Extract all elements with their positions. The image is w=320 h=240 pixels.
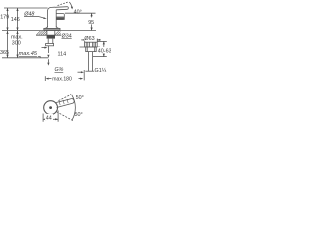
G3/8 direction arrow <box>47 59 49 62</box>
lever raised dashed line <box>58 2 69 6</box>
svg-text:365: 365 <box>0 50 9 56</box>
faucet body left edge <box>47 10 49 27</box>
svg-text:max.45: max.45 <box>19 51 38 57</box>
plan view swing dashed down <box>57 112 73 121</box>
svg-text:300: 300 <box>12 41 21 47</box>
basin surface line <box>80 46 101 48</box>
spout <box>56 13 64 15</box>
dimension 179 line <box>7 8 9 31</box>
svg-text:Ø48: Ø48 <box>23 11 34 17</box>
deck hatching right <box>55 31 61 35</box>
label 44 <box>45 114 53 120</box>
escutcheon <box>44 28 60 30</box>
svg-text:95: 95 <box>88 20 94 26</box>
waste locknut <box>86 47 97 52</box>
hose coupling <box>46 44 54 46</box>
label Ø63 <box>84 35 95 41</box>
dimension 40-63 ext lines <box>97 40 107 42</box>
dimension max180 line <box>44 76 46 81</box>
wire deck line <box>2 30 96 32</box>
svg-text:40-63: 40-63 <box>98 49 111 55</box>
dimension 95 extension line <box>65 12 96 14</box>
svg-text:44: 44 <box>46 116 52 122</box>
dimension Ø63 ext lines <box>84 39 86 43</box>
label 95 <box>88 17 96 24</box>
plan view swing dashed up <box>59 94 72 100</box>
dimension arrow to ext <box>78 71 83 73</box>
flexible hose <box>47 46 49 53</box>
label Ø48 leader <box>24 16 39 18</box>
shank nut <box>47 35 55 38</box>
plan view swing arc <box>72 95 75 120</box>
plan view faucet body circle <box>44 101 58 115</box>
dimension max180 right ext line <box>83 70 85 80</box>
svg-text:50°: 50° <box>76 95 84 101</box>
label max45 leader drop <box>38 57 40 58</box>
dimension 146 line <box>17 8 19 31</box>
faucet pivot top <box>48 7 55 10</box>
plan view lever bar <box>55 99 71 103</box>
deck hatching left <box>37 31 47 35</box>
svg-text:146: 146 <box>11 17 20 23</box>
dimension Ø63 line <box>81 39 85 41</box>
dimension 44 ext lines <box>42 114 44 122</box>
waste flange <box>85 42 98 47</box>
svg-text:Ø34: Ø34 <box>62 33 72 39</box>
wire top extension line <box>4 7 48 9</box>
dimension 365 line below deck <box>7 31 9 58</box>
svg-text:G1¼: G1¼ <box>95 68 107 74</box>
svg-text:179: 179 <box>0 15 9 21</box>
svg-text:max.180: max.180 <box>52 76 72 82</box>
aerator <box>56 18 64 20</box>
faucet body right edge <box>55 10 57 28</box>
label 40-63 <box>97 47 110 54</box>
dimension max300 line below deck <box>17 31 19 58</box>
dimension 95 line <box>91 13 93 30</box>
svg-text:114: 114 <box>58 52 67 58</box>
dimension 40-63 line <box>103 41 105 56</box>
leader arrow to hose <box>42 47 46 49</box>
arc 40deg <box>69 2 72 8</box>
deck hole edges <box>46 31 48 36</box>
plan view center dot <box>49 106 52 109</box>
svg-text:G⅜: G⅜ <box>55 67 64 73</box>
faucet base flare <box>44 26 47 28</box>
svg-text:Ø63: Ø63 <box>84 36 94 42</box>
waste tailpipe <box>87 52 89 72</box>
dimension 44 line <box>43 118 58 120</box>
shank threads <box>47 39 49 44</box>
text labels <box>0 9 112 121</box>
wire hose-end extension line <box>2 57 48 59</box>
lever handle <box>55 6 68 9</box>
svg-text:40°: 40° <box>74 9 82 15</box>
svg-text:50°: 50° <box>75 112 83 118</box>
deck cross-section bottom line <box>36 34 61 36</box>
